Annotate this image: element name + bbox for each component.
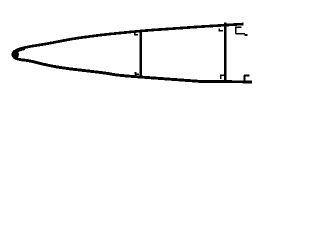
leading edge solid core — [12, 50, 19, 59]
spar 1 top clip — [135, 32, 139, 34]
trailing edge tab foot — [236, 33, 245, 35]
top skin (nose curve into straight center section, ends x=243.5) — [15, 24, 244, 52]
trailing edge tab upper bar — [235, 26, 241, 28]
bottom skin (nose curve, then straight descending to trailing end x=251.5) — [15, 58, 253, 82]
leading edge curl crack — [18, 52, 20, 56]
spar 1 bottom clip — [136, 72, 140, 74]
trailing edge tab end nub — [245, 34, 248, 36]
spar 2 bottom clip — [221, 75, 224, 79]
leading edge bottom wrap inner root — [15, 57, 26, 61]
leading edge top wrap inner root — [15, 49, 26, 53]
trailing edge tab step vertical — [235, 27, 237, 33]
bottom trailing hook — [244, 76, 249, 81]
spar web 2 — [224, 22, 227, 81]
spar web 1 — [140, 31, 143, 76]
spar 2 top clip — [219, 28, 223, 30]
